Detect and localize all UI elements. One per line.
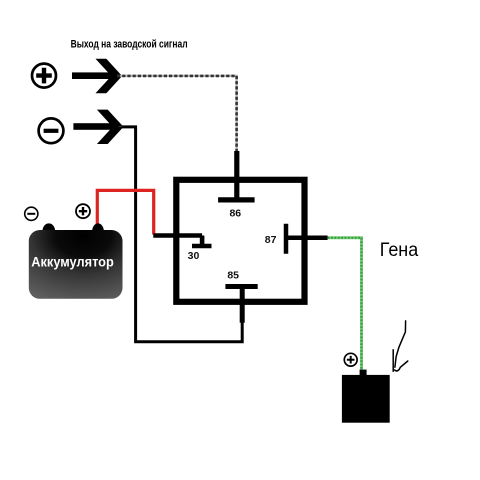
battery terminal right [92, 223, 104, 238]
generator plus circle [344, 353, 357, 366]
wire into relay pin 30 [153, 236, 211, 247]
svg-text:87: 87 [265, 234, 277, 246]
hand-drawn arrow pointing at generator box [393, 321, 408, 371]
battery terminal left [43, 223, 56, 238]
green wire from pin 87 to generator box [328, 238, 362, 371]
svg-text:30: 30 [188, 250, 200, 262]
svg-text:86: 86 [229, 207, 241, 219]
battery minus circle [25, 207, 38, 220]
plus terminal symbol (top left) [32, 64, 56, 88]
generator terminal block [360, 370, 367, 377]
relay pin 86 (stub + T-bar) [218, 151, 255, 200]
svg-text:Аккумулятор: Аккумулятор [31, 253, 114, 269]
battery plus circle [76, 204, 90, 218]
relay pin 87 (bar + wire out) [286, 224, 328, 254]
relay pin 85 (T-bar + stub) [225, 287, 257, 323]
svg-text:Выход на заводской сигнал: Выход на заводской сигнал [71, 38, 188, 50]
arrow from minus terminal [73, 110, 123, 144]
svg-text:85: 85 [227, 270, 239, 282]
svg-text:Гена: Гена [380, 239, 419, 261]
arrow from plus terminal [72, 59, 122, 93]
minus terminal symbol [39, 118, 64, 143]
red wire from battery plus to pin 30 [97, 190, 153, 234]
wire from minus arrow down and to relay pin 85 [122, 127, 242, 342]
battery body [29, 230, 123, 299]
relay box [176, 180, 304, 302]
generator box [342, 375, 390, 423]
dashed wire to relay pin 86 [117, 76, 237, 152]
